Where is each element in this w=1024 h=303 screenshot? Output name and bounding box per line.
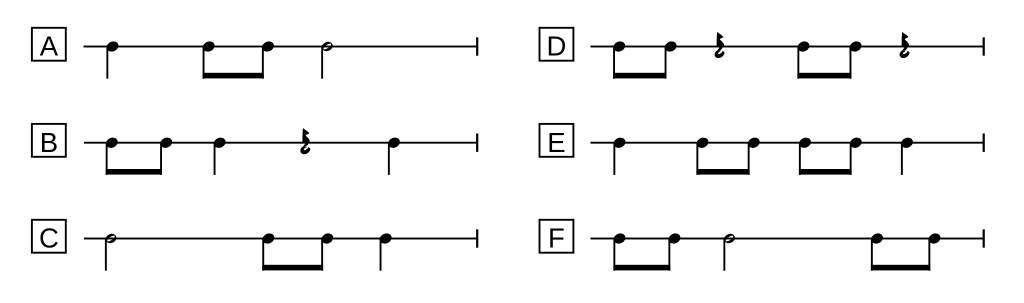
staff line B xyxy=(84,142,477,144)
half note F3 xyxy=(723,232,737,271)
beam E4-E5 xyxy=(799,169,852,175)
quarter note E1 xyxy=(612,136,627,175)
beam F1-F2 xyxy=(613,265,670,271)
half note C1 xyxy=(104,232,118,271)
staff line A xyxy=(84,46,478,48)
eighth note D4 xyxy=(796,40,811,79)
beam D1-D2 xyxy=(613,73,666,79)
eighth note E3 xyxy=(746,136,761,175)
quarter note B5 xyxy=(386,136,401,175)
quarter note A1 xyxy=(105,40,120,79)
eighth note D5 xyxy=(848,40,863,79)
staff line D xyxy=(591,46,984,48)
svg-text:C: C xyxy=(39,223,59,254)
staff line C xyxy=(84,238,477,240)
eighth note F1 xyxy=(612,232,627,271)
quarter rest D6 xyxy=(900,32,910,58)
end barline F xyxy=(983,229,985,247)
eighth note F2 xyxy=(667,232,682,271)
eighth note E2 xyxy=(695,136,710,175)
svg-text:D: D xyxy=(546,31,566,62)
quarter note E6 xyxy=(899,136,914,175)
end barline C xyxy=(476,229,478,247)
quarter note C4 xyxy=(378,232,393,271)
beam E2-E3 xyxy=(696,169,749,175)
quarter rest B4 xyxy=(300,128,310,154)
label box F xyxy=(540,220,574,253)
end barline D xyxy=(983,37,985,55)
label box D xyxy=(540,28,574,61)
beam B1-B2 xyxy=(106,169,162,175)
svg-text:F: F xyxy=(548,223,565,254)
eighth note D1 xyxy=(612,40,627,79)
eighth note B2 xyxy=(159,136,174,175)
eighth note D2 xyxy=(663,40,678,79)
eighth note C3 xyxy=(320,232,335,271)
staff line E xyxy=(591,142,984,144)
eighth note E4 xyxy=(797,136,812,175)
label box B xyxy=(32,124,66,157)
svg-text:E: E xyxy=(547,127,565,158)
end barline B xyxy=(476,134,478,152)
end barline A xyxy=(476,37,478,55)
eighth note A3 xyxy=(260,40,275,79)
label box E xyxy=(540,124,574,157)
beam F4-F5 xyxy=(871,265,930,271)
beam C2-C3 xyxy=(262,265,323,271)
eighth note C2 xyxy=(261,232,276,271)
eighth note F5 xyxy=(927,232,942,271)
quarter rest D3 xyxy=(715,32,725,58)
label box C xyxy=(32,220,66,253)
label box A xyxy=(32,28,66,61)
half note A4 xyxy=(320,40,334,79)
eighth note F4 xyxy=(869,232,884,271)
staff line F xyxy=(591,238,984,240)
eighth note A2 xyxy=(201,40,216,79)
svg-text:A: A xyxy=(40,31,59,62)
eighth note E5 xyxy=(848,136,863,175)
quarter note B3 xyxy=(212,136,227,175)
beam D4-D5 xyxy=(797,73,851,79)
beam A2-A3 xyxy=(203,73,264,79)
end barline E xyxy=(983,134,985,152)
eighth note B1 xyxy=(104,136,119,175)
svg-text:B: B xyxy=(40,127,58,158)
